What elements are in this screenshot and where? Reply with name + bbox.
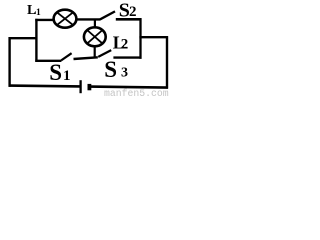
- wire L2 bottom drop: [94, 46, 96, 58]
- svg-text:S: S: [49, 60, 62, 85]
- wire branch vertical: [35, 19, 37, 62]
- wire mid-right vertical: [139, 18, 141, 59]
- battery short plate: [88, 84, 92, 90]
- wire bottom left: [9, 84, 81, 87]
- wire left vertical: [8, 37, 10, 87]
- svg-text:L: L: [27, 3, 36, 18]
- battery long plate: [79, 80, 81, 93]
- svg-text:2: 2: [129, 4, 137, 20]
- switch S1 blade: [61, 53, 71, 60]
- svg-text:3: 3: [121, 66, 128, 81]
- watermark: [104, 88, 169, 99]
- wire top to L1: [35, 19, 54, 21]
- label L2: [113, 32, 129, 52]
- lamp L2: [84, 27, 106, 46]
- wire left horizontal: [9, 37, 38, 39]
- wire S1 left: [35, 60, 61, 62]
- wire right horizontal: [139, 36, 168, 38]
- wire L1 to S2: [76, 18, 101, 20]
- svg-text:2: 2: [121, 36, 129, 52]
- svg-text:S: S: [104, 57, 117, 82]
- svg-text:1: 1: [63, 68, 71, 84]
- label S2: [119, 0, 137, 21]
- label S3: [104, 57, 128, 82]
- switch S3 blade: [98, 50, 111, 57]
- wire S3 right: [113, 56, 141, 58]
- svg-text:manfen5.com: manfen5.com: [104, 88, 169, 98]
- svg-text:1: 1: [36, 8, 41, 18]
- label L1: [27, 3, 41, 18]
- wire S2 right: [116, 18, 142, 21]
- wire right vertical: [166, 36, 168, 89]
- lamp L1: [54, 10, 77, 28]
- wire S1 right: [74, 57, 98, 59]
- wire L2 top drop: [94, 19, 96, 28]
- switch S2 blade: [100, 11, 115, 19]
- label S1: [49, 60, 70, 85]
- wire bottom right: [90, 87, 168, 88]
